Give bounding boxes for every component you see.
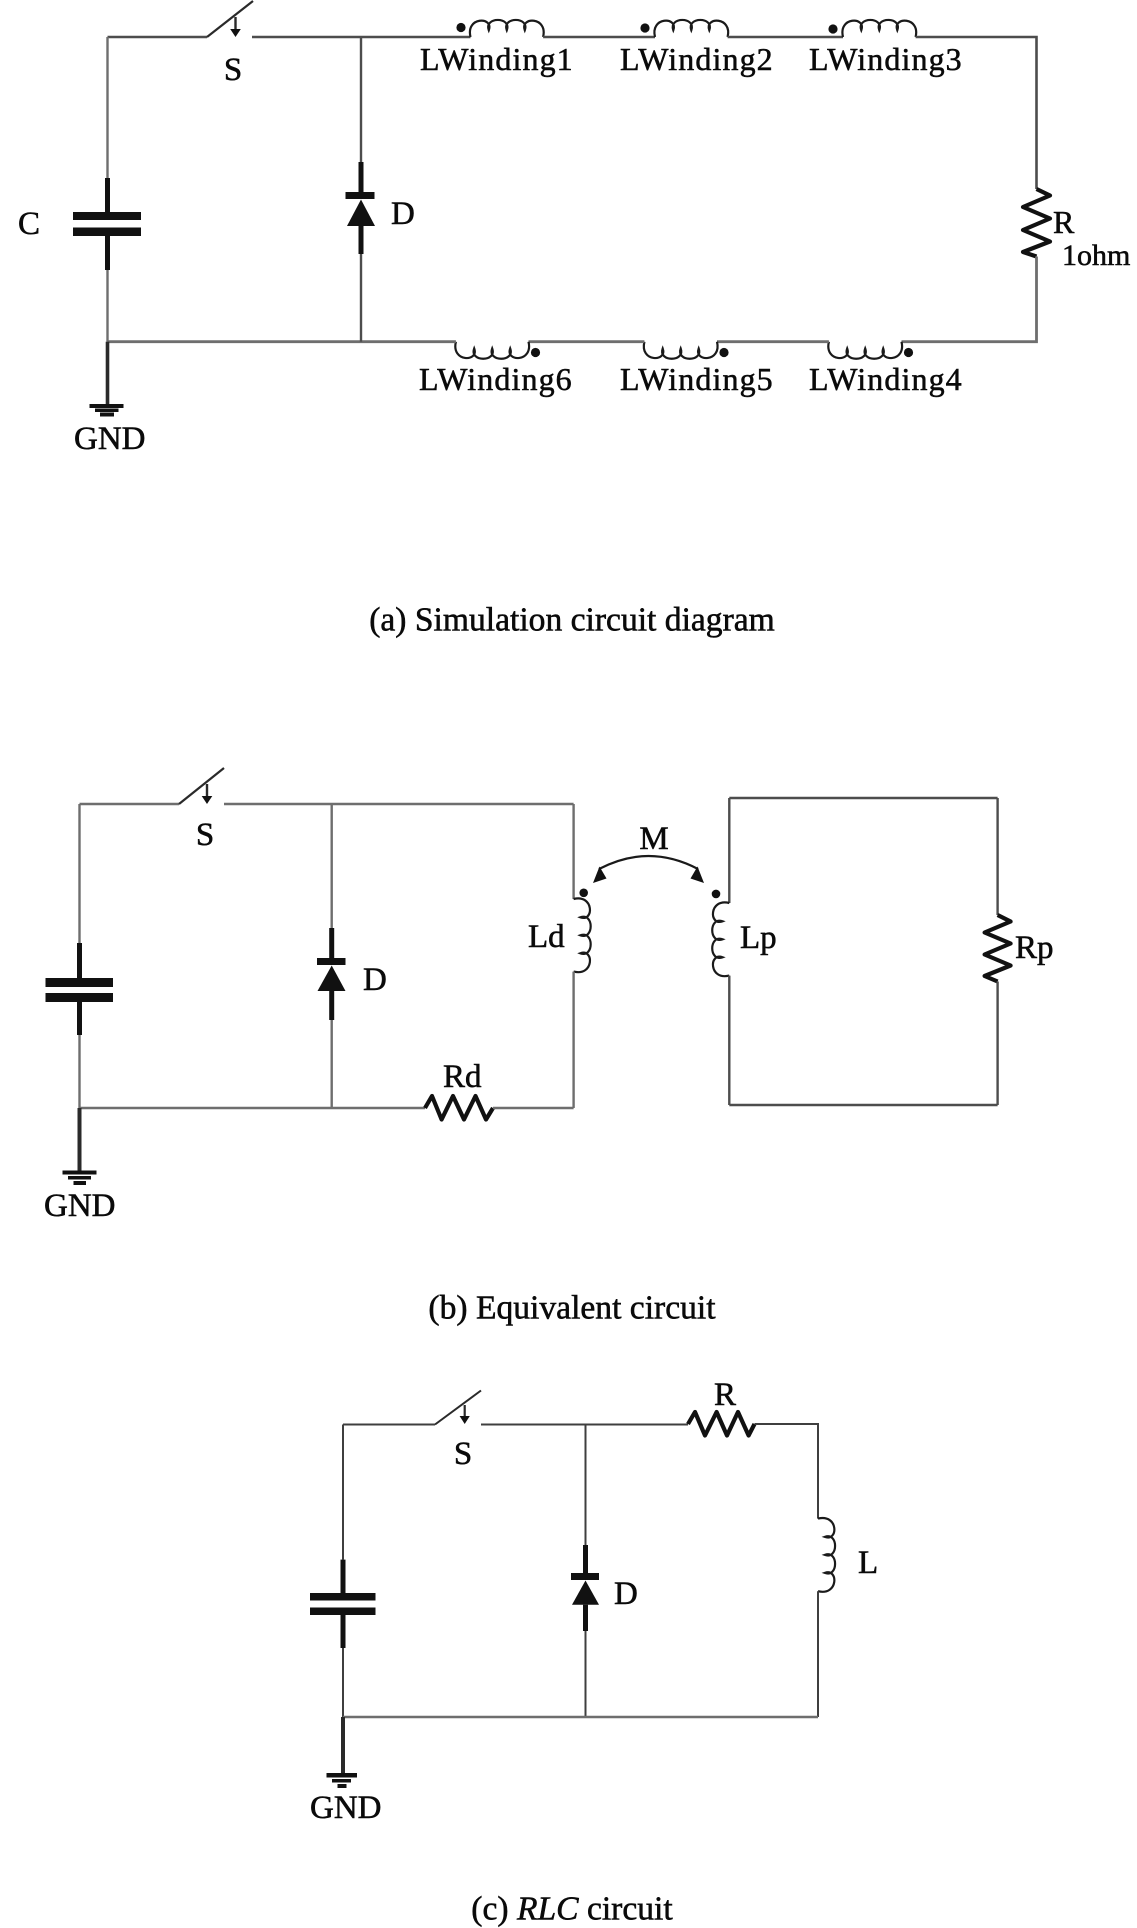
dot Lp (b) <box>712 890 721 899</box>
wire bottom (a) LW4-LW5 <box>717 340 829 343</box>
svg-text:M: M <box>639 821 668 857</box>
svg-text:D: D <box>391 196 415 232</box>
wire bottom-left (b) <box>80 1107 426 1109</box>
wire left vertical upper (c) <box>342 1425 344 1560</box>
svg-text:(b) Equivalent circuit: (b) Equivalent circuit <box>428 1290 716 1327</box>
svg-text:Rp: Rp <box>1015 930 1054 966</box>
svg-text:1ohm: 1ohm <box>1062 239 1130 272</box>
diode branch wire (c) <box>585 1425 587 1546</box>
svg-text:L: L <box>858 1545 878 1581</box>
wire bottom (a) LW5-LW6 <box>529 340 645 343</box>
ground stem (a) <box>106 342 110 404</box>
diode D (b) <box>329 928 334 958</box>
wire top-right (a) <box>916 37 1037 189</box>
inductor LWinding3 coil <box>842 20 916 37</box>
wire right-bottom (a) <box>902 257 1037 342</box>
ground (b) <box>63 1171 97 1175</box>
svg-text:R: R <box>1053 204 1075 240</box>
dot LWinding2 <box>640 23 649 32</box>
svg-text:LWinding6: LWinding6 <box>419 361 573 397</box>
switch S (b) actuator arrow <box>206 784 208 796</box>
wire left vertical lower (c) <box>342 1648 344 1717</box>
svg-text:LWinding4: LWinding4 <box>809 361 963 397</box>
ground (c) <box>327 1773 358 1778</box>
inductor LWinding6 coil <box>455 342 529 359</box>
switch S (b) blade <box>179 768 224 804</box>
svg-text:(a) Simulation circuit diagram: (a) Simulation circuit diagram <box>369 602 775 639</box>
inductor LWinding2 coil <box>654 20 728 37</box>
right loop bottom wire (b) <box>729 1104 997 1106</box>
wire bottom-left (a) <box>108 340 456 343</box>
diode branch wire (b) <box>331 804 333 928</box>
diode D (c) <box>583 1545 588 1573</box>
svg-text:(c) RLC circuit: (c) RLC circuit <box>471 1891 673 1928</box>
svg-text:D: D <box>614 1576 638 1612</box>
svg-text:R: R <box>714 1377 736 1413</box>
dot LWinding1 <box>456 23 465 32</box>
dot LWinding4 <box>904 348 913 357</box>
capacitor (c) <box>341 1560 346 1593</box>
wire left vertical lower (b) <box>78 1035 80 1108</box>
svg-text:Rd: Rd <box>443 1059 482 1095</box>
ground (a) <box>90 404 124 408</box>
diode branch wire (a) <box>360 37 362 162</box>
svg-text:LWinding3: LWinding3 <box>809 41 963 77</box>
svg-text:Ld: Ld <box>528 919 565 955</box>
wire top (a) LW1-LW2 <box>543 36 655 39</box>
diode D (a) <box>359 162 364 192</box>
resistor R (c) zigzag <box>688 1412 755 1436</box>
svg-text:LWinding5: LWinding5 <box>620 361 774 397</box>
ground stem (c) <box>341 1717 345 1773</box>
switch S (a) blade <box>207 1 253 37</box>
right loop left vertical lower (b) <box>728 976 730 1105</box>
dot LWinding5 <box>719 348 728 357</box>
right loop top wire (b) <box>729 797 997 799</box>
dot Ld (b) <box>579 889 588 898</box>
svg-text:Lp: Lp <box>740 920 777 956</box>
inductor Ld coil (b) <box>574 898 591 972</box>
right loop right vertical lower (b) <box>996 982 998 1106</box>
wire bottom (c) <box>343 1716 818 1718</box>
capacitor C (a) <box>105 178 110 212</box>
wire top-left (b) <box>80 803 180 805</box>
inductor LWinding1 coil <box>470 20 544 37</box>
inductor LWinding4 coil <box>828 342 902 359</box>
diode branch wire lower (c) <box>585 1631 587 1717</box>
wire right vertical lower of left loop (b) <box>572 972 574 1108</box>
wire top (a) switch to LWinding1 <box>252 36 471 39</box>
svg-text:LWinding2: LWinding2 <box>620 41 774 77</box>
wire bottom (b) Rd to corner <box>493 1107 574 1109</box>
inductor LWinding5 coil <box>644 342 718 359</box>
wire right vertical lower (c) <box>817 1591 819 1717</box>
wire left vertical upper (b) <box>78 804 80 943</box>
inductor L coil (c) <box>818 1518 835 1592</box>
wire top-right (c) <box>755 1424 819 1519</box>
switch S (c) blade <box>435 1391 481 1425</box>
svg-text:GND: GND <box>74 421 146 457</box>
ground stem (b) <box>78 1108 82 1171</box>
resistor Rd (b) zigzag <box>425 1096 493 1120</box>
svg-text:GND: GND <box>44 1188 116 1224</box>
wire left vertical upper (a) <box>106 37 108 178</box>
wire right vertical upper of left loop (b) <box>572 804 574 899</box>
switch S (c) actuator arrow <box>464 1405 466 1416</box>
dot LWinding6 <box>531 348 540 357</box>
svg-text:GND: GND <box>310 1790 382 1826</box>
resistor R (a) zigzag <box>1023 189 1050 257</box>
mutual coupling arc M (b) <box>599 856 698 869</box>
svg-text:S: S <box>454 1436 472 1472</box>
wire top (b) switch to corner <box>224 803 574 805</box>
wire top (c) switch to R <box>481 1424 688 1426</box>
wire top (a) LW2-LW3 <box>728 36 843 39</box>
svg-text:LWinding1: LWinding1 <box>420 41 574 77</box>
svg-text:C: C <box>18 206 40 242</box>
wire top-left horizontal (a) <box>108 36 208 39</box>
svg-text:S: S <box>224 52 242 88</box>
switch S (a) actuator arrow <box>234 17 236 29</box>
svg-text:D: D <box>363 962 387 998</box>
svg-text:S: S <box>196 817 214 853</box>
dot LWinding3 <box>828 24 837 33</box>
inductor Lp coil (b) <box>712 902 729 976</box>
wire left vertical lower (a) <box>106 270 108 342</box>
diode branch wire lower (b) <box>331 1020 333 1108</box>
right loop left vertical upper (b) <box>728 798 730 903</box>
wire top-left (c) <box>343 1424 435 1426</box>
resistor Rp (b) zigzag <box>985 915 1011 982</box>
diode branch wire lower (a) <box>360 254 362 342</box>
capacitor (b) <box>77 943 82 978</box>
right loop right vertical upper (b) <box>996 798 998 915</box>
